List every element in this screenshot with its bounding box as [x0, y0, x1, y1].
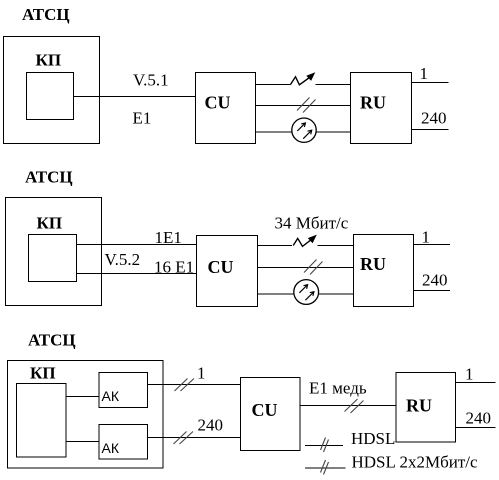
wire CU-1 to RU-1 middle [256, 105, 351, 107]
svg-text:HDSL: HDSL [351, 429, 395, 448]
block КП-3 tall box [17, 384, 67, 458]
wire CU-3 to RU-3 [300, 405, 396, 407]
radio link symbol (zigzag arrow, section 1) [291, 72, 316, 85]
svg-text:240: 240 [198, 416, 224, 435]
svg-text:RU: RU [406, 396, 432, 416]
radio link symbol (zigzag arrow, section 2) [293, 235, 317, 247]
svg-text:HDSL 2x2Мбит/с: HDSL 2x2Мбит/с [352, 453, 479, 472]
double slash (АК-2 line) [174, 432, 194, 445]
wire КП-1 to CU-1 [74, 96, 196, 98]
svg-text:1: 1 [465, 365, 474, 384]
block КП-2 inner box [29, 235, 77, 282]
wire CU-1 to RU-1 bottom [256, 131, 293, 133]
block АТСЦ-2 outer box [6, 198, 102, 306]
legend line HDSL 2x2 [305, 467, 346, 469]
block CU-2 [197, 236, 258, 307]
svg-text:240: 240 [466, 409, 492, 428]
svg-text:RU: RU [360, 254, 386, 274]
svg-text:CU: CU [205, 93, 231, 113]
double slash (АК-1 line) [175, 379, 195, 392]
block CU-1 [196, 73, 256, 144]
wire КП-2 to CU-2 line 1E1 [77, 244, 197, 246]
wire КП-2 to CU-2 line 16E1 [77, 273, 197, 275]
wire КП-3 to АК-2 [66, 441, 99, 443]
wire RU-3 output 1 [456, 382, 496, 384]
wire RU-2 output 240 [414, 290, 451, 292]
svg-text:АТСЦ: АТСЦ [25, 168, 73, 187]
block RU-1 [351, 73, 412, 144]
legend double slash (HDSL) [321, 438, 329, 453]
double slash (section 1 middle line) [297, 98, 316, 113]
legend double slash (HDSL 2x2) [321, 460, 329, 475]
svg-text:RU: RU [360, 93, 386, 113]
svg-text:1: 1 [422, 228, 431, 247]
wire RU-1 output 240 [412, 129, 449, 131]
svg-text:АК: АК [102, 440, 120, 456]
block АК-1 [99, 373, 148, 408]
wire CU-2 to RU-2 bottom [258, 293, 295, 295]
double slash (CU-3 to RU-3 line) [345, 399, 364, 413]
double slash (section 2 middle line) [304, 260, 323, 275]
block RU-3 [396, 373, 456, 443]
svg-text:CU: CU [252, 400, 278, 420]
svg-text:240: 240 [421, 109, 447, 128]
svg-text:АТСЦ: АТСЦ [22, 5, 70, 24]
svg-text:CU: CU [208, 257, 234, 277]
wire RU-1 output 1 [412, 82, 449, 84]
svg-text:V.5.1: V.5.1 [133, 71, 169, 90]
wire CU-2 to RU-2 top (radio link) [258, 245, 293, 247]
legend line HDSL [305, 445, 343, 447]
optical emitter symbol (circle with two arrows, section 2) [294, 280, 319, 305]
svg-text:E1: E1 [133, 109, 152, 128]
optical emitter symbol (circle with two arrows, section 1) [292, 118, 316, 142]
block АТСЦ-3 outer box [8, 361, 164, 469]
wire RU-3 output 240 [456, 427, 496, 429]
svg-text:V.5.2: V.5.2 [105, 250, 141, 269]
block КП-1 inner box [27, 73, 74, 120]
svg-text:E1 медь: E1 медь [309, 379, 367, 398]
svg-text:КП: КП [36, 51, 62, 70]
svg-text:1E1: 1E1 [155, 228, 182, 247]
block RU-2 [354, 235, 414, 307]
svg-text:КП: КП [37, 214, 63, 233]
wire АК-2 to CU-3 [148, 437, 241, 439]
wire АК-1 to CU-3 [148, 384, 241, 386]
svg-text:КП: КП [30, 364, 56, 383]
wire CU-1 to RU-1 top (radio link) [256, 84, 291, 86]
wire RU-2 output 1 [414, 244, 451, 246]
svg-text:16 E1: 16 E1 [154, 258, 194, 277]
block АТСЦ-1 outer box [4, 37, 100, 144]
svg-text:1: 1 [197, 364, 206, 383]
wire CU-2 to RU-2 middle [258, 267, 354, 269]
svg-text:АТСЦ: АТСЦ [28, 331, 76, 350]
block АК-2 [99, 425, 148, 460]
svg-text:АК: АК [102, 388, 120, 404]
wire КП-3 to АК-1 [66, 396, 99, 398]
svg-text:240: 240 [422, 271, 448, 290]
svg-text:34 Мбит/с: 34 Мбит/с [275, 214, 349, 233]
block CU-3 [241, 378, 301, 451]
svg-text:1: 1 [420, 64, 429, 83]
